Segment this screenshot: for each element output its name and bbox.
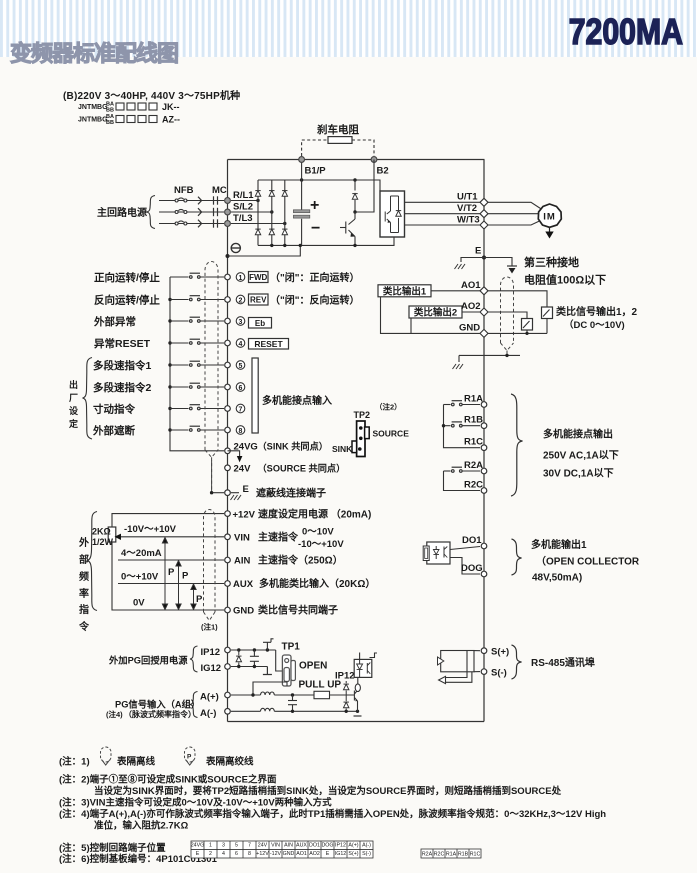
wire: motor lead U xyxy=(488,202,541,208)
wire: rectifier column 1 xyxy=(257,180,259,245)
shield capsule analog xyxy=(204,510,216,613)
circled number 6 xyxy=(236,383,245,392)
shield capsule tail xyxy=(205,450,218,493)
svg-text:外部遮断: 外部遮断 xyxy=(92,424,135,437)
node A- cap junction xyxy=(291,710,294,713)
svg-text:JK--: JK-- xyxy=(162,102,180,112)
wire: optocoupler to DO1 xyxy=(450,547,480,550)
node common bus row3 xyxy=(168,319,171,322)
svg-text:1: 1 xyxy=(209,843,212,849)
svg-text:（SOURCE 共同点）: （SOURCE 共同点） xyxy=(258,463,346,474)
svg-text:S/L2: S/L2 xyxy=(233,202,253,213)
wire: meter2 to GND ext xyxy=(526,330,528,333)
diode rectifier bottom 1 xyxy=(255,229,260,235)
svg-text:GND: GND xyxy=(459,323,480,334)
svg-text:0～10V: 0～10V xyxy=(302,527,334,538)
ground earth IG12 xyxy=(263,667,272,675)
svg-text:S(-): S(-) xyxy=(362,851,371,857)
brace for 3-phase source xyxy=(147,196,156,229)
svg-text:BB: BB xyxy=(106,108,114,114)
wire: phase R to rectifier column 1 xyxy=(231,200,258,202)
svg-text:准位，输入阻抗2.7KΩ: 准位，输入阻抗2.7KΩ xyxy=(94,820,189,832)
node E on right bus xyxy=(482,256,486,260)
box 类比输出2 xyxy=(409,306,462,319)
svg-text:6: 6 xyxy=(239,385,243,392)
svg-text:+12V: +12V xyxy=(256,851,269,857)
terminal +12V xyxy=(225,511,231,517)
svg-text:+: + xyxy=(310,197,319,214)
wire: IP12 row xyxy=(231,649,276,651)
svg-text:T/L3: T/L3 xyxy=(233,213,253,224)
svg-text:6: 6 xyxy=(235,851,238,857)
svg-text:IG12: IG12 xyxy=(335,851,347,857)
breaker NFB pole R xyxy=(175,198,187,202)
svg-text:DO1: DO1 xyxy=(462,535,482,546)
wire: A(-) row xyxy=(231,710,261,712)
terminal T/L3 xyxy=(225,221,231,227)
node brake emitter on minus rail xyxy=(353,244,356,247)
terminal 24V xyxy=(225,465,231,471)
terminal W/T3 xyxy=(480,221,488,229)
terminal VIN xyxy=(225,534,231,540)
svg-text:VIN: VIN xyxy=(234,533,250,544)
svg-text:AO1: AO1 xyxy=(461,280,481,291)
terminal R1A xyxy=(481,402,487,408)
relay strip labels xyxy=(422,851,481,857)
svg-text:+12V: +12V xyxy=(233,510,256,521)
RS485 driver box xyxy=(438,651,481,672)
wire: phase T to rectifier column 3 xyxy=(231,223,285,225)
terminal R/L1 xyxy=(225,198,231,204)
svg-text:24VG: 24VG xyxy=(191,843,205,849)
node IP12 cap xyxy=(253,648,256,651)
wire: motor lead W xyxy=(488,221,541,226)
svg-text:48V,50mA): 48V,50mA) xyxy=(532,573,582,584)
svg-text:AO2: AO2 xyxy=(309,851,320,857)
svg-text:AO2: AO2 xyxy=(461,301,481,312)
terminal GND right xyxy=(480,329,488,337)
wire: shield drain to E xyxy=(212,492,224,494)
svg-text:JNTMBG: JNTMBG xyxy=(78,104,108,111)
svg-text:电阻值100Ω以下: 电阻值100Ω以下 xyxy=(524,273,606,287)
brace 出厂设定 rows5-8 xyxy=(83,358,93,440)
svg-text:(注4): (注4) xyxy=(106,709,123,719)
node AO shield drain xyxy=(505,354,508,357)
svg-text:类比输出1: 类比输出1 xyxy=(383,285,427,297)
svg-text:（"闭"：反向运转）: （"闭"：反向运转） xyxy=(270,294,359,307)
label 出厂设定 vertical xyxy=(68,379,79,429)
svg-text:(注：2)端子①至⑧可设定成SINK或SOURCE之界面: (注：2)端子①至⑧可设定成SINK或SOURCE之界面 xyxy=(59,774,277,786)
model line AZ xyxy=(78,114,180,126)
svg-text:IM: IM xyxy=(543,212,556,223)
svg-text:1: 1 xyxy=(239,275,243,282)
svg-text:MC: MC xyxy=(212,185,227,196)
jumper TP2 xyxy=(352,421,369,457)
svg-text:REV: REV xyxy=(250,296,267,305)
wire: inverter bottom edge xyxy=(228,721,485,723)
note1 shield oval symbol xyxy=(101,747,112,765)
svg-text:R2A: R2A xyxy=(464,460,483,471)
svg-text:2: 2 xyxy=(239,297,243,304)
brake resistor dashed wires xyxy=(302,140,374,156)
terminal 24VG xyxy=(225,448,231,454)
svg-text:5: 5 xyxy=(239,363,243,370)
capacitor IP12-IG12 xyxy=(250,650,259,667)
svg-text:刹车电阻: 刹车电阻 xyxy=(317,123,359,136)
svg-text:2: 2 xyxy=(209,851,212,857)
node A+ TP1 junction xyxy=(251,693,254,696)
svg-text:8: 8 xyxy=(248,851,251,857)
circled number 5 xyxy=(236,361,245,370)
wire: E to chassis ground xyxy=(231,492,239,494)
resistor pull-up A+ xyxy=(314,691,330,698)
svg-text:多机能输出1: 多机能输出1 xyxy=(531,538,587,551)
capacitor A+/A- xyxy=(288,695,297,711)
diode rectifier top 1 xyxy=(255,191,260,197)
arrow span AUX-0V xyxy=(191,584,196,610)
terminal R2C xyxy=(481,488,487,494)
terminal U/T1 xyxy=(480,198,488,206)
wire: optocoupler bottom to oval xyxy=(357,677,359,684)
wire: A(+) row xyxy=(231,694,261,696)
svg-text:PG信号输入（A组）: PG信号输入（A组） xyxy=(115,699,200,710)
label +12V row xyxy=(233,508,372,521)
ground hook IP12 xyxy=(263,639,274,650)
svg-text:部: 部 xyxy=(79,553,89,566)
wire: rectifier column 2 xyxy=(271,180,273,245)
relay contact R1A xyxy=(444,401,481,406)
brace DO output xyxy=(512,539,522,575)
svg-text:S(+): S(+) xyxy=(348,851,358,857)
svg-text:异常RESET: 异常RESET xyxy=(94,337,151,350)
node brake chopper mid xyxy=(353,210,356,213)
svg-text:（"闭"：正向运转）: （"闭"：正向运转） xyxy=(270,271,359,284)
wire: motor lead V xyxy=(488,213,539,215)
svg-text:FWD: FWD xyxy=(249,273,267,282)
label AUX row xyxy=(233,577,375,590)
node A- zener junction xyxy=(345,710,348,713)
wire: A- after coil xyxy=(274,710,357,712)
brace 外部频率指令 xyxy=(88,512,98,611)
svg-text:类比输出2: 类比输出2 xyxy=(414,307,457,319)
svg-text:AZ--: AZ-- xyxy=(162,115,180,125)
svg-text:DOG: DOG xyxy=(461,563,483,574)
transistor brake chopper IGBT xyxy=(340,212,355,245)
inductor A+ xyxy=(261,692,275,695)
ground chassis AO shield xyxy=(453,364,464,369)
wire: +12V to potentiometer top xyxy=(112,514,224,527)
svg-text:R1B: R1B xyxy=(458,851,469,857)
svg-text:主速指令（250Ω）: 主速指令（250Ω） xyxy=(258,554,343,567)
terminal 7 xyxy=(225,406,231,412)
node common bus row6 xyxy=(168,385,171,388)
svg-text:AIN: AIN xyxy=(234,556,251,567)
relay terminal strip xyxy=(421,849,481,858)
svg-text:R2C: R2C xyxy=(434,851,445,857)
svg-text:-10V～+10V: -10V～+10V xyxy=(124,524,177,535)
bar multifunction contact input xyxy=(252,358,258,433)
svg-text:-10～+10V: -10～+10V xyxy=(298,539,344,550)
brace RS485 xyxy=(512,645,522,679)
wire: left bus (inverter left edge) xyxy=(227,160,229,722)
node rectifier tap 2 xyxy=(270,210,273,213)
svg-text:RESET: RESET xyxy=(254,339,283,349)
node brake diode top xyxy=(353,178,356,181)
contactor MC pole T xyxy=(214,219,218,227)
arrow span AIN-0V xyxy=(176,561,181,610)
node common bus row7 xyxy=(168,407,171,410)
motor IM xyxy=(538,204,561,227)
circled number 3 xyxy=(236,317,245,326)
terminal GND analog xyxy=(225,607,231,613)
wire: AIN line xyxy=(118,559,224,561)
svg-text:类比信号输出1，2: 类比信号输出1，2 xyxy=(556,305,638,318)
node minus rail col2 xyxy=(270,244,273,247)
switch input row7 xyxy=(170,405,224,410)
node shield drain xyxy=(210,491,213,494)
diode zener stack upper xyxy=(344,681,349,690)
svg-text:多机能类比输入（20KΩ）: 多机能类比输入（20KΩ） xyxy=(259,577,375,590)
wire: AO shield drain line xyxy=(459,354,520,356)
svg-text:外加PG回授用电源: 外加PG回授用电源 xyxy=(108,655,188,666)
wire: inverter top edge B1/P bus xyxy=(228,159,485,161)
svg-text:(B)220V 3～40HP, 440V 3～75HP机种: (B)220V 3～40HP, 440V 3～75HP机种 xyxy=(63,89,240,102)
svg-text:IP12: IP12 xyxy=(335,843,346,849)
svg-text:多机能接点输出: 多机能接点输出 xyxy=(543,428,613,441)
model line JK xyxy=(78,102,180,114)
svg-text:频: 频 xyxy=(79,570,89,583)
note1 twisted oval symbol xyxy=(185,747,196,765)
wire: IP12 to TP1 xyxy=(276,650,283,671)
note line 1 xyxy=(59,756,254,768)
svg-text:设: 设 xyxy=(69,405,79,416)
svg-text:NFB: NFB xyxy=(174,185,194,196)
breaker chevron T xyxy=(198,220,202,228)
label 24VG (SINK) xyxy=(234,441,328,453)
optocoupler DO1 xyxy=(423,542,450,564)
svg-text:-12V: -12V xyxy=(270,851,282,857)
wire: AO1 to meter1 xyxy=(488,291,547,307)
terminal 4 xyxy=(225,340,231,346)
node meter2 gnd xyxy=(525,332,528,335)
wire: phase R input xyxy=(159,200,224,202)
svg-text:表隔离线: 表隔离线 xyxy=(116,756,156,768)
lamp/pin oval collector xyxy=(355,684,360,692)
wire: E to left chassis ground xyxy=(461,258,484,263)
svg-text:B1/P: B1/P xyxy=(305,166,327,177)
wire: meter1 to GND ext xyxy=(546,319,548,334)
svg-text:E: E xyxy=(196,851,200,857)
svg-text:当设定为SINK界面时，要将TP2短路插梢插到SINK处，当: 当设定为SINK界面时，要将TP2短路插梢插到SINK处，当设定为SOURCE界… xyxy=(94,785,562,797)
diode rectifier bottom 2 xyxy=(269,229,274,235)
diode zener IP12-IG12 xyxy=(236,650,241,667)
inductor A- xyxy=(261,708,275,711)
svg-text:−: − xyxy=(311,220,320,237)
svg-text:反向运转/停止: 反向运转/停止 xyxy=(94,294,160,307)
breaker NFB pole S xyxy=(175,209,187,213)
terminal strip row2 labels xyxy=(196,851,371,857)
node rectifier tap 1 xyxy=(256,199,259,202)
wire: IG12 row xyxy=(231,666,267,668)
svg-text:P: P xyxy=(196,594,203,605)
diode brake (freewheel) xyxy=(352,180,357,212)
box 类比输出1 xyxy=(378,285,431,298)
terminal S(+) xyxy=(481,648,487,654)
ground chassis at E xyxy=(231,495,242,500)
terminal A(+) xyxy=(225,692,231,698)
svg-text:IP12: IP12 xyxy=(201,647,221,658)
node plus rail B1/P drop xyxy=(300,178,303,181)
terminal R2A xyxy=(481,468,487,474)
wire: DC minus rail xyxy=(258,237,394,245)
svg-text:3: 3 xyxy=(239,319,243,326)
svg-text:B2: B2 xyxy=(377,166,389,177)
node minus rail earth-link xyxy=(299,244,302,247)
box FWD xyxy=(249,272,269,283)
svg-text:5: 5 xyxy=(235,843,238,849)
node: left bus earth junction xyxy=(226,254,230,258)
node minus rail col3 xyxy=(283,244,286,247)
node B1/P xyxy=(299,157,305,163)
terminal 5 xyxy=(225,362,231,368)
svg-text:GND: GND xyxy=(283,851,295,857)
svg-text:R/L1: R/L1 xyxy=(233,190,254,201)
svg-text:第三种接地: 第三种接地 xyxy=(524,255,579,269)
svg-text:RS-485通讯埠: RS-485通讯埠 xyxy=(531,656,595,669)
node common bus row5 xyxy=(168,363,171,366)
svg-text:0～+10V: 0～+10V xyxy=(121,572,159,583)
diode rectifier top 3 xyxy=(282,191,287,197)
wire: A+ after coil xyxy=(274,694,314,696)
wire: VIN wiper line with arrow xyxy=(115,534,225,540)
wire: TP1 bottom to A+ line xyxy=(253,682,287,695)
switch input row6 xyxy=(170,383,224,388)
meter analog output 2 xyxy=(522,319,533,331)
striped header band xyxy=(0,0,697,57)
svg-text:A(+): A(+) xyxy=(348,843,358,849)
wire: box1 to AO1 xyxy=(431,290,480,292)
node A+ cap junction xyxy=(291,693,294,696)
capacitor DC bus (electrolytic) xyxy=(293,180,309,245)
svg-text:速度设定用电源 （20mA): 速度设定用电源 （20mA) xyxy=(258,508,371,521)
svg-text:外: 外 xyxy=(78,536,89,549)
svg-text:主速指令: 主速指令 xyxy=(258,531,299,544)
svg-text:R1A: R1A xyxy=(464,394,483,405)
label 24V (SOURCE) xyxy=(234,463,346,475)
terminal R1C xyxy=(481,445,487,451)
optocoupler PG xyxy=(354,659,372,677)
breaker NFB pole T xyxy=(175,221,187,225)
svg-text:7200MA: 7200MA xyxy=(569,13,683,53)
node R1 rail mid xyxy=(442,424,445,427)
wire: rectifier column 3 xyxy=(284,180,286,245)
svg-text:DO1: DO1 xyxy=(309,843,320,849)
terminal DO1 xyxy=(481,543,487,549)
circled number 1 xyxy=(236,273,245,282)
switch input row8 xyxy=(170,426,224,431)
node IP12 zener xyxy=(237,648,240,651)
transistor IGBT inside module xyxy=(385,196,398,233)
svg-text:A(-): A(-) xyxy=(200,708,216,719)
contactor MC pole S xyxy=(214,208,218,216)
terminal AO1 xyxy=(480,287,488,295)
wire: output U phase xyxy=(405,201,481,203)
svg-text:24V: 24V xyxy=(234,464,252,475)
svg-text:（OPEN COLLECTOR: （OPEN COLLECTOR xyxy=(536,555,640,568)
breaker chevron S xyxy=(198,208,202,216)
terminal AO2 xyxy=(480,308,488,316)
svg-text:率: 率 xyxy=(79,587,89,600)
switch input row5 xyxy=(170,361,224,366)
arrow span VIN-0V xyxy=(162,538,167,610)
wire: phase S input xyxy=(159,211,224,213)
svg-text:DOG: DOG xyxy=(321,843,333,849)
node A- emitter junction xyxy=(356,710,359,713)
svg-text:(注：5)控制回路端子位置: (注：5)控制回路端子位置 xyxy=(59,842,166,854)
svg-text:P: P xyxy=(182,571,189,582)
svg-text:R2A: R2A xyxy=(422,851,433,857)
RS485 receive arrow xyxy=(439,672,472,684)
wire: box1 down to GND line xyxy=(381,297,481,334)
svg-text:（脉波式频率指令）: （脉波式频率指令） xyxy=(124,709,196,719)
svg-text:定: 定 xyxy=(68,418,79,429)
wire: AO2 to meter2 xyxy=(488,312,527,319)
svg-text:SINK: SINK xyxy=(332,444,353,454)
svg-text:(注1): (注1) xyxy=(201,622,218,632)
switch input row1 xyxy=(170,273,224,278)
terminal E shield xyxy=(225,490,231,496)
svg-text:AO1: AO1 xyxy=(296,851,307,857)
svg-text:U/T1: U/T1 xyxy=(457,192,478,203)
shield capsule around input wires xyxy=(205,262,218,451)
svg-text:多段速指令1: 多段速指令1 xyxy=(93,359,151,372)
wire: phase S to rectifier column 2 xyxy=(231,211,272,213)
node IP12 gnd xyxy=(266,648,269,651)
terminal 8 xyxy=(225,427,231,433)
model line AZ squares xyxy=(116,116,157,123)
svg-text:0V: 0V xyxy=(133,598,145,609)
label GND row xyxy=(233,604,338,617)
potentiometer 2K ohm body xyxy=(108,527,116,542)
motor ground arrow xyxy=(545,227,553,238)
svg-text:IP12: IP12 xyxy=(335,671,355,682)
svg-text:BB: BB xyxy=(106,120,114,126)
wire: A+ to transistor base xyxy=(330,694,355,696)
svg-text:R1B: R1B xyxy=(464,415,483,426)
ground chassis left of E xyxy=(455,264,466,269)
terminal IP12 xyxy=(225,647,231,653)
box Eb xyxy=(249,318,272,329)
node IG12 cap xyxy=(253,665,256,668)
wire: E to earth ground xyxy=(484,258,512,267)
svg-text:厂: 厂 xyxy=(69,393,78,403)
svg-text:多段速指令2: 多段速指令2 xyxy=(93,381,151,394)
svg-text:令: 令 xyxy=(78,620,90,633)
svg-text:R1C: R1C xyxy=(470,851,481,857)
svg-text:JNTMBG: JNTMBG xyxy=(78,117,108,124)
switch input row2 xyxy=(170,296,224,301)
wire: GND extension xyxy=(488,332,547,334)
box RESET xyxy=(249,339,289,350)
svg-text:2KΩ: 2KΩ xyxy=(92,527,111,537)
box REV xyxy=(249,294,269,305)
svg-text:V/T2: V/T2 xyxy=(457,203,477,214)
label AIN row xyxy=(234,554,343,567)
svg-text:TP1: TP1 xyxy=(282,642,301,653)
svg-text:R2C: R2C xyxy=(464,480,483,491)
terminal strip row1 labels xyxy=(191,843,371,849)
wire: switch common bus xyxy=(170,277,224,451)
